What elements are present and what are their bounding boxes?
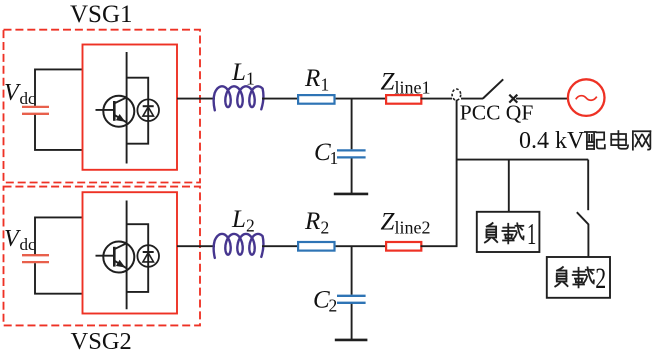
label VSG2 (71, 328, 132, 355)
svg-text:L: L (231, 206, 246, 233)
wire drop to load2 switch (587, 160, 589, 211)
label Zline2 (381, 209, 431, 238)
wire C1 to ground (351, 159, 353, 194)
wire dc bus top (VSG1) (35, 69, 83, 105)
svg-text:VSG1: VSG1 (70, 1, 133, 28)
svg-text:V: V (4, 226, 21, 252)
wire R1 to Z1 (336, 98, 387, 100)
capacitor C1 (337, 150, 366, 157)
wire Z1 to PCC (421, 98, 453, 100)
wire collector-emitter vertical (inverter) (126, 201, 128, 310)
svg-text:dc: dc (20, 235, 37, 254)
svg-text:2: 2 (246, 216, 255, 236)
load box 负载1 (477, 212, 540, 252)
impedance Zline2 (386, 242, 421, 251)
wire dc bus bottom (VSG1) (35, 115, 83, 150)
wire PCC to QF (461, 98, 483, 100)
label Zline1 (381, 69, 431, 98)
breaker QF cross (509, 95, 517, 103)
wire drop to load1 (508, 160, 510, 212)
wire base lead (96, 109, 115, 111)
inverter box U2 (83, 192, 178, 313)
svg-text:PCC QF: PCC QF (460, 101, 534, 125)
inductor L1 (214, 86, 264, 110)
resistor R2 (298, 242, 334, 251)
svg-text:1: 1 (527, 216, 536, 251)
svg-text:L: L (231, 59, 246, 86)
wire L1 to R1 (262, 98, 298, 100)
svg-text:Z: Z (381, 209, 396, 236)
svg-text:VSG2: VSG2 (71, 328, 132, 355)
capacitor Vdc plates (VSG2) (22, 255, 49, 262)
wire diode branch loop (127, 78, 149, 144)
VSG1 dashed boundary box (4, 30, 201, 183)
label Vdc (VSG1) (4, 80, 36, 108)
svg-text:R: R (304, 65, 320, 92)
switch blade (load2) (577, 212, 589, 224)
node PCC dashed circle (452, 89, 461, 100)
wire base lead (96, 255, 115, 257)
diode symbol (143, 106, 154, 116)
label PCC QF (460, 101, 534, 125)
wire dc bus bottom (VSG2) (35, 263, 83, 294)
capacitor C2 (337, 296, 366, 303)
svg-text:C: C (313, 287, 330, 314)
load box 负载2 (547, 257, 610, 298)
svg-text:2: 2 (329, 296, 338, 316)
wire Z2 to bus (421, 245, 458, 247)
label VSG1 (70, 1, 133, 28)
wire node to C2 (351, 246, 353, 295)
transistor circle (103, 242, 134, 273)
inductor L2 (214, 234, 264, 258)
VSG2 dashed boundary box (4, 187, 201, 326)
label C2 (313, 287, 337, 316)
label 1 (load1) (527, 216, 536, 251)
transistor base bar (113, 247, 116, 267)
svg-text:R: R (304, 208, 320, 235)
svg-text:1: 1 (246, 69, 255, 89)
wire QF to grid source (516, 98, 568, 100)
ground (C2) (335, 339, 368, 342)
label 负 (load1) (485, 223, 497, 242)
wire collector-emitter vertical (inverter) (126, 52, 128, 164)
inverter box U1 (83, 45, 178, 170)
svg-text:1: 1 (330, 148, 339, 168)
label 配 (585, 132, 605, 149)
breaker QF blade (483, 79, 503, 98)
label 负 (load2) (555, 267, 567, 286)
svg-text:2: 2 (321, 218, 330, 238)
wire inverter1 output (177, 98, 215, 100)
svg-text:1: 1 (321, 75, 330, 95)
svg-text:Z: Z (381, 69, 396, 96)
label 2 (load2) (595, 262, 606, 295)
svg-text:line2: line2 (395, 218, 431, 238)
label 网 (633, 131, 650, 149)
wire node to C1 (351, 99, 353, 150)
svg-text:0.4 kV: 0.4 kV (519, 128, 585, 154)
wire switch to load2 (587, 224, 589, 257)
label Vdc (VSG2) (4, 226, 36, 254)
label 载 (load2) (573, 267, 594, 287)
label C1 (314, 139, 338, 168)
label 电 (611, 131, 628, 149)
ground (C1) (334, 193, 368, 196)
label L1 (231, 59, 255, 89)
wire L2 to R2 (262, 245, 298, 247)
transistor collector stroke (114, 97, 127, 103)
label L2 (231, 206, 255, 236)
transistor collector stroke (114, 243, 127, 249)
label 0.4 kV (519, 128, 585, 154)
ac source G (grid) (568, 79, 605, 116)
impedance Zline1 (386, 95, 421, 104)
svg-text:line1: line1 (395, 78, 431, 98)
wire inverter2 output (177, 245, 215, 247)
wire PCC vertical drop (456, 100, 458, 246)
svg-text:V: V (4, 80, 21, 106)
capacitor Vdc plates (VSG1) (22, 107, 49, 114)
wire dc bus top (VSG2) (35, 217, 83, 254)
wire C2 to ground (351, 304, 353, 340)
svg-text:2: 2 (595, 262, 606, 295)
label R1 (304, 65, 329, 95)
svg-text:C: C (314, 139, 331, 166)
transistor emitter stroke with arrow (114, 114, 127, 123)
wire R2 to Z2 (336, 245, 387, 247)
wire load bus (457, 159, 589, 161)
svg-text:dc: dc (20, 89, 37, 108)
diode symbol (143, 252, 154, 262)
diode circle (137, 245, 159, 267)
label R2 (304, 208, 329, 238)
transistor emitter stroke with arrow (114, 260, 127, 269)
resistor R1 (298, 95, 334, 104)
wire diode branch loop (127, 224, 149, 292)
transistor base bar (113, 101, 116, 121)
label 载 (load1) (502, 223, 523, 243)
diode circle (137, 99, 159, 121)
transistor circle (103, 96, 134, 127)
